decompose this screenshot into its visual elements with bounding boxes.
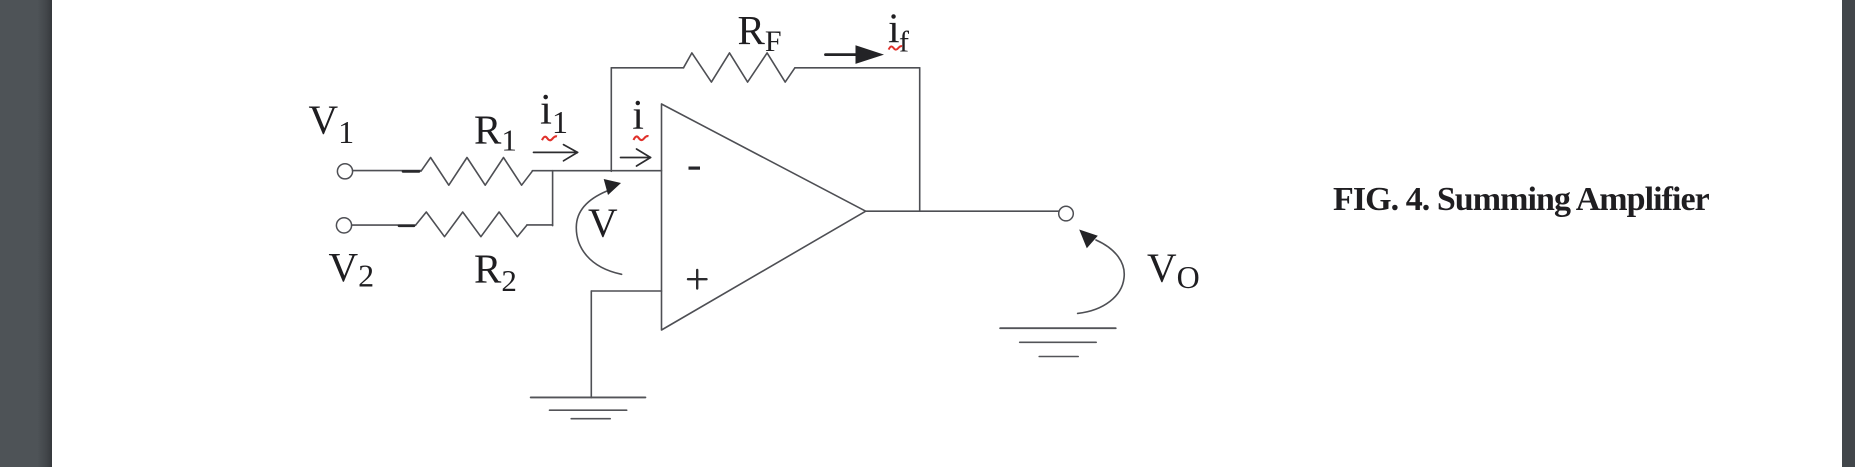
wire R2 to junction: [527, 224, 553, 226]
arrow i: [621, 149, 651, 166]
wire noninverting input vertical: [590, 291, 592, 398]
wire V2 to R2: [352, 224, 416, 226]
left page edge strip: [0, 0, 52, 467]
svg-text:if: if: [888, 7, 909, 59]
arc VO: [1078, 240, 1125, 313]
wire feedback right vertical: [919, 68, 921, 211]
resistor RF: [684, 53, 795, 82]
resistor R1: [421, 158, 532, 186]
arrow if shaft: [826, 53, 859, 56]
resistor R2: [416, 212, 527, 237]
wire output: [866, 210, 1059, 212]
wire feedback left vertical: [610, 68, 612, 172]
right page edge strip: [1842, 0, 1855, 467]
svg-text:i1: i1: [540, 87, 568, 141]
spellcheck squiggle if: [889, 46, 903, 50]
svg-text:FIG. 4. Summing Amplifier: FIG. 4. Summing Amplifier: [1333, 181, 1710, 218]
minus symbol: [689, 167, 701, 170]
arrow V arrowhead: [604, 179, 621, 195]
arrow if head: [856, 45, 885, 64]
wire top feedback left: [611, 67, 683, 69]
spellcheck squiggle i1: [542, 136, 557, 140]
wire V1 to R1: [353, 170, 421, 172]
spellcheck squiggle i: [634, 136, 649, 140]
op-amp U1: [662, 104, 866, 330]
arrow VO arrowhead: [1079, 230, 1098, 249]
arrow i1: [534, 145, 578, 161]
wire junction vertical: [552, 171, 554, 226]
output terminal: [1059, 206, 1074, 221]
input terminal V2: [336, 218, 351, 233]
wire lead overlap V1: [403, 170, 419, 173]
ground (output reference): [1000, 328, 1115, 356]
svg-text:V: V: [588, 200, 618, 246]
ground (noninverting input): [531, 397, 646, 418]
input terminal V1: [337, 164, 352, 179]
svg-text:R1: R1: [474, 106, 517, 157]
svg-text:RF: RF: [738, 7, 782, 58]
arc V: [576, 191, 621, 274]
wire top feedback right: [795, 67, 920, 69]
svg-text:V1: V1: [309, 96, 355, 150]
svg-text:VO: VO: [1147, 244, 1200, 295]
wire noninverting input horizontal: [591, 290, 661, 292]
wire R1 to op-amp inverting input: [532, 170, 661, 172]
wire lead overlap V2: [399, 225, 414, 228]
svg-text:i: i: [632, 93, 644, 139]
plus symbol: [688, 270, 707, 289]
svg-text:V2: V2: [329, 244, 375, 294]
svg-text:R2: R2: [474, 246, 517, 299]
